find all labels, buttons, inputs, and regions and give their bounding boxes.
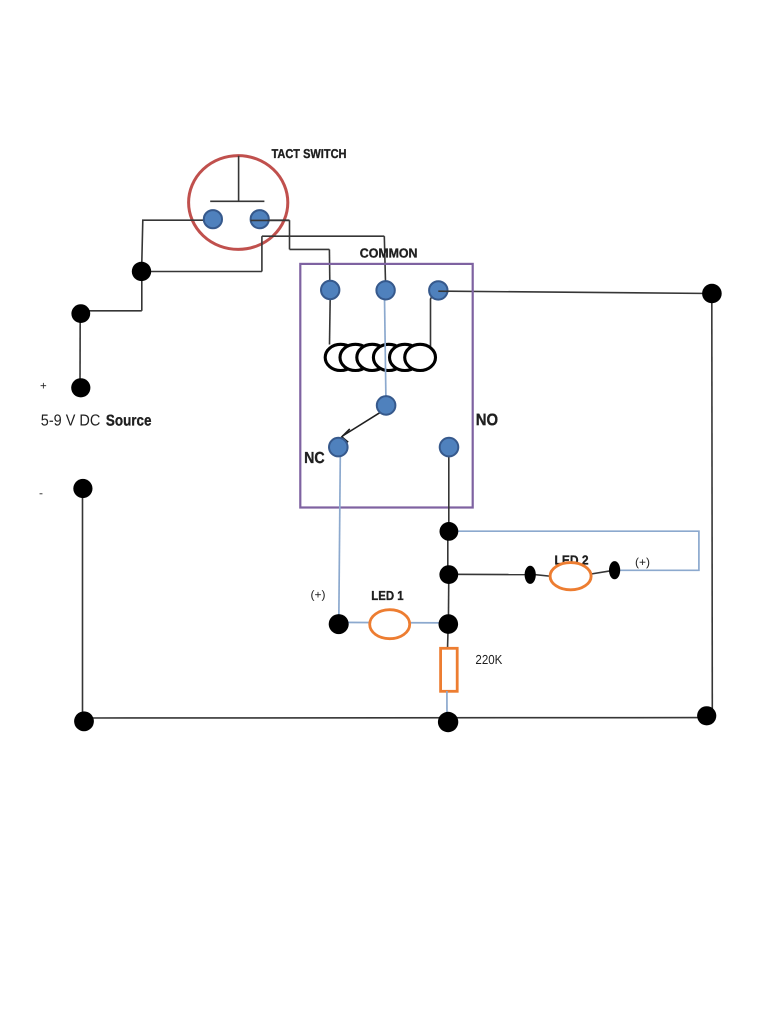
wire node8 to resistor [447,624,450,649]
node bottom right [697,706,716,725]
wire riser up [261,236,263,271]
wire left rail down to + terminal [79,311,81,388]
node bottom middle [438,712,458,732]
wire across to COMMON [262,235,384,237]
armature arrow [343,412,381,436]
wire - terminal down to bottom rail [82,489,84,715]
node + terminal [71,378,90,397]
wire crossing over relay right pin [438,290,449,292]
relay pin blue dots [204,210,459,456]
node LED2 row [439,565,458,584]
resistor 220K body [441,648,458,691]
blue loop wire from NO node to LED2 anode [452,531,699,570]
tact switch pin 2 [251,210,269,228]
wire from tact pin1 to left corner [142,220,209,271]
node - terminal [73,479,92,498]
node below NO [440,522,459,541]
wire across to relay pin NC-top [290,248,330,250]
node LED1 junction [439,614,459,634]
wire down to relay left pin [328,249,331,289]
svg-text:5-9 V DC: 5-9 V DC [41,412,101,429]
svg-text:-: - [39,486,43,500]
relay pin right [429,281,447,299]
relay NC contact [329,438,348,457]
wire down from pin2 stub [289,220,291,249]
wire node A down [141,272,143,311]
relay pin COMMON [376,281,394,299]
relay armature pivot [377,396,396,415]
svg-text:220K: 220K [475,652,502,667]
LED1 body [370,610,410,639]
tact switch actuator stem [238,156,240,202]
node bottom left [74,711,94,731]
wire down to COMMON pin [384,236,385,289]
svg-text:LED 1: LED 1 [371,588,403,603]
wire across to left rail [81,310,142,312]
relay NO contact [440,438,459,457]
LED2 body [550,563,591,590]
tact switch body circle [189,156,288,250]
svg-text:(+): (+) [310,589,325,601]
wire node6 to node7 [447,531,449,574]
bottom rail wire [84,717,707,719]
wire stub right of tact pin2 [253,219,290,221]
wire node A to common riser [142,271,262,273]
tact switch pin 1 [204,210,222,228]
LED2 cathode lead dot [525,566,536,584]
LED2 anode lead dot [609,561,620,579]
LED1 anode node [329,614,349,634]
svg-text:Source: Source [106,412,152,429]
svg-text:(+): (+) [635,557,650,569]
wire node7 to node8 [447,575,449,624]
wire LED2 cathode lead to LED2 [532,574,553,576]
wire relay right pin to top right node [447,291,712,293]
wire NO pin down to node [448,455,450,528]
wire node7 to LED2 cathode lead [449,573,528,575]
node left corner [71,304,90,323]
blue wire common pin to armature [385,297,386,397]
wire relay right pin to coil [431,295,434,348]
relay box [300,264,472,508]
svg-text:COMMON: COMMON [360,245,418,260]
svg-text:NO: NO [476,411,498,429]
svg-text:NC: NC [304,450,325,467]
svg-text:+: + [40,380,47,392]
blue wire LED1 row [339,621,448,624]
blue wire NC pin down to LED1 node [339,455,341,621]
relay coil [325,344,435,370]
tact switch actuator plate [210,200,264,202]
blue wire resistor to bottom rail [446,691,448,719]
wire crossing over tact pin 2 [251,219,290,221]
relay pin left [321,281,339,299]
node top right [702,284,722,304]
wire relay left pin to coil [329,297,332,345]
node A junction [132,262,151,281]
svg-text:TACT SWITCH: TACT SWITCH [271,146,346,161]
wire LED2 to anode lead [588,570,613,574]
right rail wire [711,294,714,710]
